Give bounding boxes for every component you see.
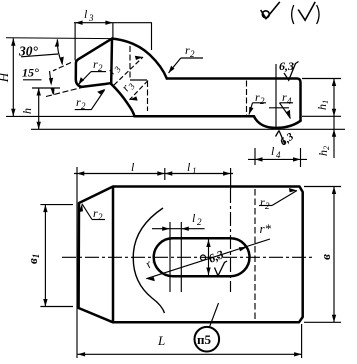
svg-text:l: l	[271, 144, 275, 158]
svg-text:15°: 15°	[22, 66, 39, 80]
dimension l plan	[74, 160, 233, 358]
wire construction center lines hump	[130, 46, 148, 111]
dimension L	[78, 324, 302, 358]
dimension B	[304, 187, 341, 323]
wire bottom datum thin left	[6, 115, 134, 117]
label r3 upper	[104, 56, 143, 85]
wire lower datum	[31, 128, 345, 130]
roughness 6,3 top	[279, 59, 299, 80]
label 15 degrees	[22, 66, 82, 97]
dimension B1	[25, 205, 73, 307]
svg-text:4: 4	[276, 150, 281, 160]
wire heel center cross	[269, 107, 289, 109]
svg-text:h2: h2	[316, 145, 331, 156]
label r1	[142, 257, 159, 271]
roughness 6,3 heel	[276, 130, 297, 148]
svg-text:h: h	[20, 108, 34, 114]
svg-text:2: 2	[260, 96, 265, 106]
svg-text:h1: h1	[315, 100, 330, 110]
dimension l3	[74, 7, 152, 61]
label r2 top right	[169, 43, 204, 73]
label r2 plan left	[79, 204, 105, 222]
wire plan horizontal centerline	[62, 256, 315, 258]
callout n5	[195, 303, 220, 352]
svg-text:п5: п5	[197, 332, 211, 347]
svg-text:l: l	[131, 160, 135, 174]
wire top reference line	[6, 37, 112, 40]
dimension h2	[316, 116, 336, 158]
label r2 nose	[79, 57, 107, 85]
label 30 degrees	[18, 39, 71, 71]
label r2 plan right	[259, 188, 297, 211]
dimension b slot width	[200, 240, 210, 276]
wire heel center vertical	[275, 64, 277, 130]
svg-text:1: 1	[192, 166, 197, 176]
svg-text:в: в	[318, 254, 333, 260]
dimension h	[20, 88, 60, 129]
label r2 under nose	[75, 89, 106, 111]
svg-text:3: 3	[88, 13, 94, 23]
svg-text:l: l	[192, 211, 196, 225]
label r-star	[146, 221, 271, 281]
svg-text:2: 2	[197, 217, 202, 227]
roughness 6,3 slot	[206, 247, 227, 276]
svg-text:L: L	[157, 333, 165, 348]
dimension H	[0, 38, 16, 116]
wire slot right centerline	[230, 189, 232, 292]
svg-text:H: H	[0, 72, 11, 83]
wire slot left vertical lines	[169, 222, 171, 292]
svg-text:4: 4	[287, 96, 292, 106]
svg-text:6,3: 6,3	[279, 59, 294, 73]
node plan outline	[79, 187, 303, 323]
svg-text:r*: r*	[260, 221, 272, 236]
svg-text:2: 2	[98, 212, 103, 222]
node nose outline	[76, 39, 301, 128]
dimension l2 slot	[152, 211, 205, 231]
label r4 heel	[280, 90, 294, 119]
label r2 heel	[249, 90, 266, 115]
surface finish mark general	[261, 2, 319, 24]
node slot	[154, 238, 250, 276]
label r3 lower	[118, 81, 148, 101]
svg-text:l: l	[84, 7, 88, 21]
dimension l4 side view	[248, 144, 307, 167]
wire break line wavy	[133, 208, 164, 313]
svg-text:l: l	[187, 160, 191, 174]
svg-text:в1: в1	[25, 254, 41, 264]
wire dashed hidden heel	[246, 81, 248, 116]
wire dashed heel edge plan	[254, 189, 256, 322]
dimension h1	[302, 79, 341, 117]
dimension l1 plan	[165, 160, 231, 189]
